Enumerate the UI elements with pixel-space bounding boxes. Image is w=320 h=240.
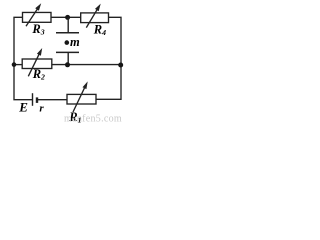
point m dot [65, 40, 70, 45]
battery short plate [36, 97, 38, 103]
node middle-left [12, 62, 17, 67]
capacitor upper stub [67, 17, 69, 32]
node below capacitor [65, 62, 70, 67]
wire battery to R1 [38, 99, 67, 101]
svg-text:E: E [18, 99, 28, 114]
wire top mid [51, 16, 81, 18]
battery long plate [32, 93, 34, 106]
resistor R4 [81, 7, 109, 28]
wire middle right of R2 [52, 64, 121, 66]
resistor R2 [22, 52, 52, 76]
node top junction [65, 15, 70, 20]
svg-text:manfen5.com: manfen5.com [64, 114, 122, 125]
capacitor bottom plate [56, 51, 79, 53]
resistor R3 [23, 6, 52, 26]
capacitor lower stub [67, 52, 69, 64]
svg-text:r: r [39, 102, 44, 114]
wire middle left stub [14, 64, 22, 66]
wire top-right corner [107, 17, 121, 65]
wire right lower [96, 65, 121, 100]
wire top-left corner [14, 17, 23, 64]
node middle-right [118, 63, 123, 68]
svg-text:m: m [70, 35, 80, 49]
capacitor top plate [56, 32, 79, 34]
resistor R1 [67, 86, 96, 112]
wire left lower [14, 65, 33, 100]
